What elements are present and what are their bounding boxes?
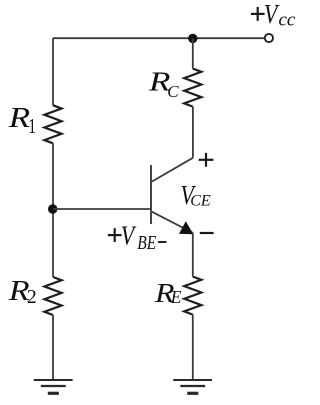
ground (right)	[173, 380, 212, 393]
svg-text:BE: BE	[137, 231, 156, 253]
transistor Q1 collector diagonal	[152, 158, 193, 182]
transistor Q1 emitter diagonal	[152, 212, 193, 233]
sign + (VCE top)	[199, 153, 214, 167]
wire right rail top (to RC)	[192, 38, 194, 68]
svg-text:C: C	[167, 82, 179, 101]
resistor RC	[184, 69, 201, 107]
label RE	[154, 279, 182, 308]
label +VBE-	[108, 221, 167, 253]
wire emitter vertical	[192, 233, 194, 277]
wire base	[53, 208, 151, 210]
resistor R1	[44, 105, 61, 143]
svg-text:CE: CE	[190, 192, 211, 209]
svg-text:E: E	[170, 287, 182, 307]
node junction dot (collector rail / top wire)	[188, 34, 197, 43]
label +Vcc	[251, 0, 296, 30]
sign - (VCE bottom)	[200, 232, 214, 234]
resistor RE	[184, 277, 201, 315]
label RC	[148, 66, 179, 101]
wire left rail middle	[52, 143, 54, 277]
label R1	[8, 102, 36, 138]
ground (left)	[34, 380, 73, 393]
svg-text:cc: cc	[279, 9, 296, 30]
wire left rail upper	[52, 38, 54, 105]
svg-text:1: 1	[28, 115, 36, 138]
transistor Q1 base bar	[150, 165, 152, 224]
wire right rail lower	[192, 315, 194, 380]
wire left rail lower	[52, 315, 54, 380]
svg-text:R: R	[8, 102, 30, 133]
svg-text:2: 2	[27, 286, 37, 308]
terminal Vcc (open circle)	[265, 34, 273, 42]
resistor R2	[44, 277, 61, 315]
wire collector vertical	[192, 107, 194, 158]
wire top rail	[53, 37, 265, 39]
transistor Q1 emitter arrow	[180, 222, 193, 234]
node base junction dot	[48, 204, 57, 213]
label VCE	[180, 181, 210, 211]
label R2	[8, 275, 37, 308]
